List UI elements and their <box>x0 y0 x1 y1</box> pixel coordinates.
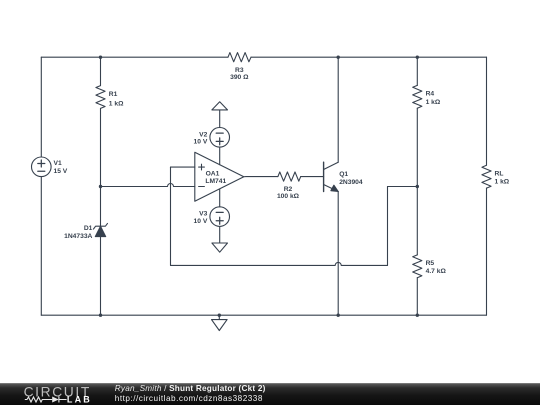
wire: left rail upper <box>40 57 42 157</box>
wire: V3 to ground <box>219 226 221 243</box>
svg-text:100 kΩ: 100 kΩ <box>277 193 300 200</box>
node: top rail / R1 branch <box>99 56 102 59</box>
svg-text:R4: R4 <box>426 90 435 97</box>
footer bar <box>0 383 540 405</box>
svg-text:LAB: LAB <box>67 395 92 405</box>
wire: emitter to bottom rail <box>337 192 339 316</box>
transistor Q1 emitter diagonal <box>324 185 339 192</box>
wire: feedback vertical right <box>387 187 389 266</box>
svg-text:V2: V2 <box>199 132 207 139</box>
wire: op-amp V- pin to V3 <box>219 189 221 207</box>
logo diode <box>52 397 59 403</box>
svg-text:10 V: 10 V <box>194 139 208 146</box>
node: bottom rail / ground <box>218 314 221 317</box>
svg-text:15 V: 15 V <box>54 168 68 175</box>
wire: divider tap to feedback <box>388 186 418 188</box>
resistor R3 zigzag <box>228 53 251 62</box>
wire: right rail upper <box>486 57 488 165</box>
power flag arrow above V2 <box>212 102 228 128</box>
svg-text:4.7 kΩ: 4.7 kΩ <box>426 268 447 275</box>
voltage source V2 plus sign <box>216 138 223 145</box>
ground at bottom rail <box>212 315 228 330</box>
voltage source V3 minus sign <box>216 211 223 213</box>
wire: D1 anode to bottom rail <box>100 237 102 316</box>
wire: collector to top rail <box>337 57 339 162</box>
svg-text:R1: R1 <box>109 91 118 98</box>
svg-text:R2: R2 <box>284 186 293 193</box>
wire: R1 bottom to D1 cathode <box>100 108 102 226</box>
wire: left rail lower <box>40 177 42 316</box>
svg-text:1N4733A: 1N4733A <box>64 233 92 240</box>
wire: op-amp output <box>244 176 278 178</box>
transistor Q1 collector diagonal <box>324 162 339 169</box>
op-amp OA1 triangle <box>195 152 244 201</box>
op-amp OA1 plus input mark <box>199 164 205 170</box>
CircuitLab logo <box>0 381 100 405</box>
wire: non-inverting input stub <box>171 166 195 168</box>
svg-text:Q1: Q1 <box>339 171 348 178</box>
footer title text <box>115 384 266 404</box>
voltage source V2 circle <box>210 128 230 148</box>
wire: V2 to op-amp V+ pin <box>219 147 221 165</box>
resistor RL zigzag <box>482 165 491 188</box>
wire: bottom rail <box>41 314 486 316</box>
logo resistor zigzag <box>25 397 52 402</box>
op-amp OA1 minus input mark <box>199 186 205 188</box>
svg-text:V3: V3 <box>199 210 207 217</box>
wire: RL to bottom rail <box>486 188 488 315</box>
svg-text:R3: R3 <box>235 67 244 74</box>
svg-text:1 kΩ: 1 kΩ <box>109 100 124 107</box>
wire: R4 top lead <box>416 57 418 85</box>
voltage source V2 minus sign <box>216 132 223 134</box>
svg-text:D1: D1 <box>84 225 93 232</box>
transistor Q1 emitter arrow <box>331 185 338 191</box>
transistor Q1 base bar <box>323 162 325 191</box>
svg-text:R5: R5 <box>426 260 435 267</box>
voltage source V3 plus sign <box>216 217 223 224</box>
wire: top rail right segment <box>251 56 487 58</box>
diode D1 triangle <box>95 226 105 236</box>
svg-text:OA1: OA1 <box>206 170 220 177</box>
svg-text:RL: RL <box>495 171 504 178</box>
node: bottom rail / D1 branch <box>99 314 102 317</box>
node: top rail / Q1 collector <box>337 56 340 59</box>
resistor R4 zigzag <box>413 85 422 108</box>
resistor R2 zigzag <box>278 172 301 181</box>
wire: top rail left segment <box>41 56 228 58</box>
node: R4/R5 divider tap <box>416 185 419 188</box>
wire: feedback vertical left <box>170 167 172 265</box>
svg-text:2N3904: 2N3904 <box>339 179 363 186</box>
wire: feedback bottom run (hop over emitter wire) <box>171 262 388 265</box>
svg-text:1 kΩ: 1 kΩ <box>426 99 441 106</box>
svg-text:390 Ω: 390 Ω <box>230 74 249 81</box>
resistor R1 zigzag <box>96 86 105 109</box>
voltage source V1 circle <box>32 157 52 177</box>
svg-text:LM741: LM741 <box>205 178 226 185</box>
svg-text:10 V: 10 V <box>194 218 208 225</box>
diode D1 zener bar <box>94 223 108 229</box>
wire: R2 to Q1 base <box>301 176 324 178</box>
wire: inverting input from D1 node (hop over feedback wire) <box>101 184 195 187</box>
voltage source V1 plus sign <box>38 160 45 167</box>
wire: divider tap to R5 <box>416 187 418 255</box>
node: top rail / R4 branch <box>416 56 419 59</box>
node: bottom rail / R5 branch <box>416 314 419 317</box>
wire: R1 top lead <box>100 57 102 85</box>
wire: R5 to bottom rail <box>416 278 418 316</box>
voltage source V3 circle <box>210 207 230 227</box>
node: D1 / inverting input <box>99 185 102 188</box>
ground below V3 <box>212 243 228 252</box>
wire: R4 to divider tap <box>416 108 418 186</box>
node: bottom rail / Q1 emitter <box>337 314 340 317</box>
voltage source V1 minus sign <box>38 170 45 172</box>
svg-text:V1: V1 <box>54 160 62 167</box>
svg-text:1 kΩ: 1 kΩ <box>495 178 510 185</box>
resistor R5 zigzag <box>413 255 422 278</box>
